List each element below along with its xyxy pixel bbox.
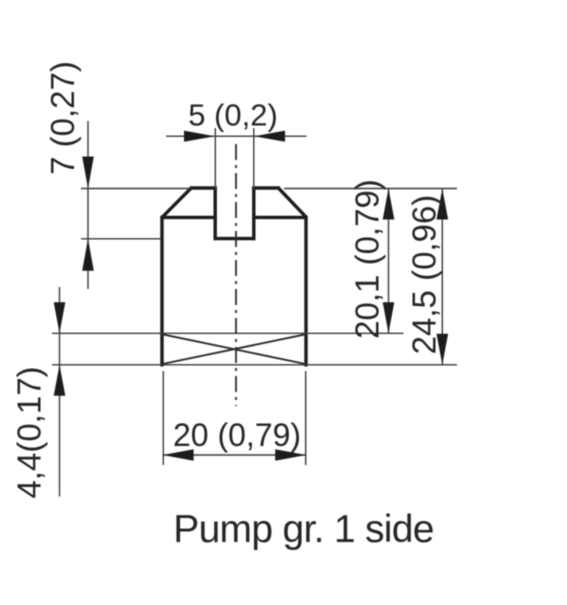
dimension 20 (0,79) extension line right <box>305 371 307 465</box>
wire knurl cross diagonal 2 <box>162 334 305 364</box>
wire right chamfer <box>278 188 306 217</box>
wire top edge left of slot <box>190 186 217 189</box>
svg-text:7 (0,27): 7 (0,27) <box>44 61 81 175</box>
dimension 5 (0,2) dimension line <box>166 135 307 137</box>
dimension 5 (0,2) arrow left <box>184 131 215 142</box>
svg-text:20,1 (0,79): 20,1 (0,79) <box>349 179 386 339</box>
dimension 5 (0,2) arrow right <box>254 131 285 142</box>
wire top edge right of slot <box>252 186 280 189</box>
dimension 5 (0,2) extension line left <box>214 128 216 189</box>
dimension 5 (0,2) extension line right <box>253 128 255 189</box>
wire knurl cross diagonal 1 <box>162 334 305 364</box>
wire slot left wall <box>213 186 216 240</box>
wire slot right wall <box>252 186 255 240</box>
svg-text:Pump gr. 1 side: Pump gr. 1 side <box>173 508 433 551</box>
dimension 20,1 (0,79) dimension line <box>388 189 390 334</box>
wire left chamfer <box>162 188 191 217</box>
dimension 20 (0,79) dimension line <box>163 454 307 456</box>
wire knurl band bottom line / extension line <box>52 364 457 366</box>
dimension 7 (0,27) extension line top <box>81 188 190 190</box>
wire shoulder line left <box>160 216 216 219</box>
dimension 7 (0,27) arrow down <box>82 157 94 189</box>
dimension 4,4(0,17) arrow up <box>54 365 66 396</box>
dimension 24,5 (0,96) arrow down <box>437 334 449 365</box>
svg-text:5 (0,2): 5 (0,2) <box>188 98 278 133</box>
dimension 7 (0,27) extension line bottom <box>81 238 161 240</box>
wire left edge of body <box>160 216 163 367</box>
svg-text:24,5 (0,96): 24,5 (0,96) <box>406 195 443 355</box>
wire knurl band top line / extension line <box>52 332 404 334</box>
dimension 20 (0,79) arrow left <box>163 449 194 461</box>
dimension 20,1 (0,79) arrow up <box>383 189 395 220</box>
dimension 7 (0,27) dimension line <box>87 121 89 289</box>
dimension 20 (0,79) arrow right <box>275 449 306 461</box>
wire shoulder line right <box>252 216 307 219</box>
svg-text:4,4(0,17): 4,4(0,17) <box>11 366 48 498</box>
svg-text:20 (0,79): 20 (0,79) <box>173 417 301 453</box>
dimension 24,5 (0,96) arrow up <box>437 189 449 220</box>
dimension 24,5 (0,96) dimension line <box>441 189 443 365</box>
dimension 20,1 (0,79) arrow down <box>383 302 395 333</box>
dimension 20,1 (0,79) top extension line <box>284 188 457 190</box>
centerline <box>235 144 237 406</box>
dimension 7 (0,27) arrow up <box>82 239 94 271</box>
wire right edge of body <box>304 216 307 367</box>
dimension 4,4(0,17) dimension line <box>59 287 61 497</box>
dimension 20 (0,79) extension line left <box>162 371 164 465</box>
dimension 4,4(0,17) arrow down <box>54 302 66 333</box>
wire slot bottom <box>214 237 256 240</box>
